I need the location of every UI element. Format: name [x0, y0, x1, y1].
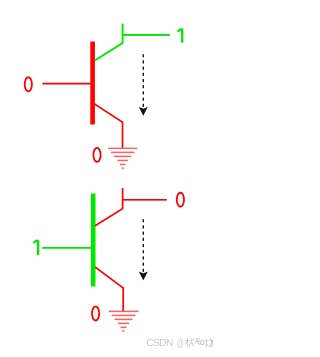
- wire: Q2 emitter diagonal: [95, 267, 123, 288]
- wire: Q1 emitter to ground: [122, 122, 124, 149]
- wire: Q1 output horizontal: [123, 34, 170, 36]
- wire: Q1 base input: [42, 83, 90, 85]
- arrow: signal flow bottom: [142, 219, 144, 272]
- wire: Q2 output horizontal: [123, 199, 167, 201]
- ground: Q1 emitter ground: [108, 148, 137, 168]
- transistor Q2 base bar: [91, 194, 96, 287]
- wire: Q1 collector stub: [122, 24, 124, 44]
- node: Q1 output label 1: [177, 28, 182, 42]
- node: Q1 ground label 0: [93, 148, 100, 162]
- node: Q2 ground label 0: [92, 307, 99, 321]
- wire: Q1 emitter diagonal: [95, 104, 123, 122]
- svg-text:@: @: [177, 337, 184, 349]
- wire: Q1 collector diagonal: [95, 43, 123, 61]
- svg-text:CSDN: CSDN: [146, 338, 173, 349]
- watermark chinese characters: [185, 338, 213, 347]
- node: Q1 input label 0: [25, 77, 32, 91]
- transistor Q1 base bar: [90, 42, 95, 125]
- wire: Q2 emitter to ground: [122, 287, 124, 311]
- wire: Q2 collector diagonal: [95, 209, 122, 226]
- node: Q2 output label 0: [177, 193, 184, 207]
- ground: Q2 emitter ground: [109, 311, 139, 331]
- node: Q2 input label 1: [33, 240, 38, 255]
- wire: Q2 collector stub: [122, 188, 124, 209]
- arrow: signal flow top: [142, 54, 144, 107]
- wire: Q2 base input: [42, 247, 91, 249]
